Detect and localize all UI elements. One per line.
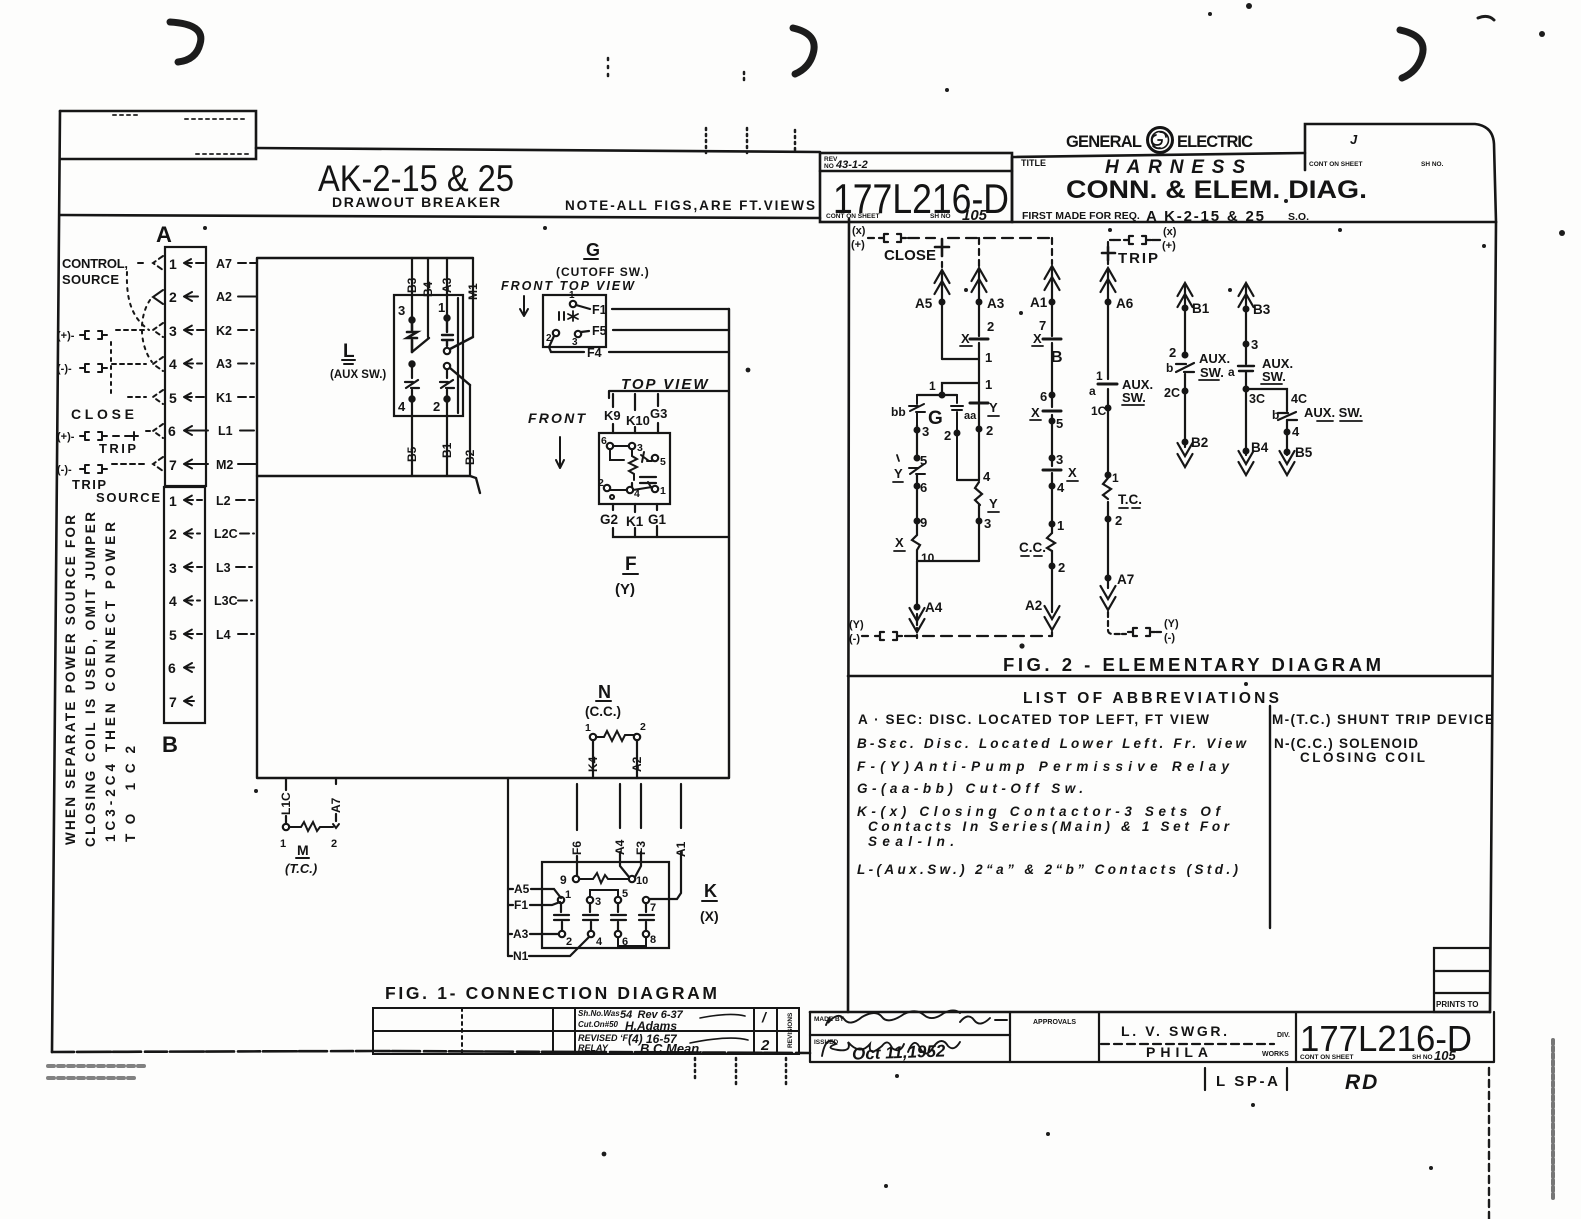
signatures [822,1011,1007,1064]
block A terminals 1-7 with wires A7 A2 K2 A3 K1 L1 M2 [168,256,256,473]
svg-text:CONT ON SHEET: CONT ON SHEET [1300,1054,1353,1061]
svg-text:B5: B5 [405,446,419,462]
svg-text:FIRST MADE FOR REQ.: FIRST MADE FOR REQ. [1022,210,1140,222]
svg-text:A5: A5 [514,882,530,896]
svg-text:9: 9 [560,873,567,887]
terminal block B [162,487,205,757]
svg-text:1: 1 [985,350,992,365]
pen squiggles top [170,22,201,62]
svg-text:1: 1 [1057,518,1064,533]
svg-text:5: 5 [622,888,628,900]
svg-text:(CUTOFF SW.): (CUTOFF SW.) [556,265,650,279]
svg-text:(Y): (Y) [1164,618,1179,630]
jumpers [590,890,618,897]
right margin faint writing [1551,1040,1555,1200]
svg-text:A · SEC: DISC. LOCATED TOP L: A · SEC: DISC. LOCATED TOP LEFT, FT VIEW [858,712,1209,727]
svg-text:4: 4 [1057,480,1065,495]
svg-text:2: 2 [331,838,337,850]
svg-text:2: 2 [1058,560,1065,575]
prints-to box [1434,948,1490,1012]
svg-text:2: 2 [986,423,993,438]
svg-text:CLOSE: CLOSE [884,247,936,264]
wire A1 lower [650,784,688,899]
svg-text:2: 2 [433,399,440,414]
svg-text:N-(C.C.) SOLENOID: N-(C.C.) SOLENOID [1274,736,1418,751]
HEADER [318,132,1444,225]
svg-text:2: 2 [640,721,646,733]
relay F (Y) [528,410,670,504]
sheet left border [52,111,60,1052]
svg-text:3C: 3C [1249,392,1265,406]
svg-text:A5: A5 [915,296,933,311]
svg-text:bb: bb [891,405,906,419]
svg-text:SW.: SW. [1200,365,1224,380]
svg-text:7: 7 [169,694,177,710]
title box [1012,153,1496,222]
svg-text:1: 1 [985,377,992,392]
svg-text:K9: K9 [604,408,621,423]
faint dotted content of top-left box [113,115,248,154]
svg-text:FIG. 2 - ELEMENTARY DIAGRAM: FIG. 2 - ELEMENTARY DIAGRAM [1003,654,1381,675]
aux switch L [330,295,473,416]
svg-text:(-)-: (-)- [57,464,72,476]
svg-text:L2C: L2C [214,527,238,541]
svg-text:5: 5 [169,390,177,406]
svg-text:HARNESS: HARNESS [1105,157,1245,178]
svg-text:B2: B2 [1191,435,1208,450]
svg-text:4: 4 [596,936,603,948]
svg-text:3: 3 [595,896,601,908]
svg-text:SW.: SW. [1262,369,1286,384]
svg-text:6: 6 [920,480,927,495]
svg-text:F: F [625,554,637,575]
svg-text:F4: F4 [587,346,602,360]
jog to G [942,383,979,395]
svg-text:A7: A7 [216,257,232,271]
branch A3 / X / Y coil chain [942,238,1005,561]
svg-text:L1: L1 [218,424,233,438]
fig2 / list divider [848,675,1491,678]
vertical note: separate power source [63,512,138,847]
svg-text:SH NO.: SH NO. [1421,161,1444,168]
svg-text:Y: Y [989,400,998,415]
svg-text:TITLE: TITLE [1021,158,1046,168]
bottom-left faint codes [48,1066,148,1078]
terminal 9 and 10 with coil [573,876,579,882]
svg-text:REVISED ‘F’: REVISED ‘F’ [578,1033,631,1043]
svg-text:4: 4 [983,469,991,484]
contact Y [970,402,988,405]
svg-text:1C: 1C [1091,404,1107,418]
svg-text:J: J [1350,132,1358,147]
GE monogram [1148,128,1173,153]
svg-text:1: 1 [569,290,575,301]
K left feed bus [507,778,509,956]
svg-text:105: 105 [962,207,988,224]
svg-text:PHILA: PHILA [1146,1044,1208,1060]
dwg number box top [820,153,1012,222]
svg-text:N1: N1 [513,949,529,963]
svg-text:G3: G3 [650,406,667,421]
svg-text:B1: B1 [1192,301,1210,316]
svg-text:B: B [162,732,178,757]
svg-text:X: X [1031,405,1040,420]
svg-text:2: 2 [987,319,994,334]
svg-text:X: X [895,535,904,550]
svg-text:2: 2 [566,936,572,948]
svg-text:Sh.No.Was: Sh.No.Was [578,1009,620,1018]
top-left reference box [60,111,256,159]
relay F top view riser [604,376,729,433]
terminals 5-6 [615,897,621,903]
svg-text:TO 1C2: TO 1C2 [123,746,138,842]
svg-text:B5: B5 [1295,445,1313,460]
svg-text:X: X [1068,465,1077,480]
contact X [970,338,988,341]
node CLOSE [935,239,949,256]
wire M1 [466,258,480,337]
svg-text:B3: B3 [405,277,419,293]
registration dot columns bottom [695,1058,786,1084]
wire A4 to (-) bus [910,600,943,638]
svg-text:B1: B1 [440,442,454,458]
svg-text:Y: Y [894,466,903,481]
LIST [857,690,1494,877]
header rule upper [256,148,820,152]
svg-text:A3: A3 [440,277,454,293]
trip device M (T.C.) [279,778,343,876]
F capacitor [640,477,656,483]
svg-text:F3: F3 [634,841,648,855]
svg-text:L3: L3 [216,561,231,575]
svg-text:3: 3 [169,560,177,576]
closing coil N (C.C.) [585,682,646,741]
svg-text:FRONT: FRONT [528,410,586,426]
svg-text:a: a [1089,384,1096,398]
svg-text:1: 1 [438,300,445,315]
close bus (-) [849,619,1052,645]
svg-text:M2: M2 [216,458,233,472]
svg-text:CONN. & ELEM. DIAG.: CONN. & ELEM. DIAG. [1066,176,1367,204]
svg-text:GENERAL: GENERAL [1066,133,1142,151]
svg-text:CONT ON SHEET: CONT ON SHEET [826,213,879,220]
svg-text:(+)-: (+)- [57,431,75,443]
block B terminals 1-7 with wires L2 L2C L3 L3C L4 [168,493,254,710]
svg-text:2: 2 [169,526,177,542]
svg-text:2: 2 [760,1037,770,1054]
svg-text:(x): (x) [852,225,866,237]
branch A6 / aux sw / T.C. [1089,268,1153,634]
F terminals bottom row 2 4 1 [604,485,610,491]
svg-text:3: 3 [572,337,578,348]
svg-text:1: 1 [169,256,177,272]
svg-text:B3: B3 [1253,302,1271,317]
svg-text:PRINTS TO: PRINTS TO [1436,1000,1479,1009]
svg-text:Oct 11,1952: Oct 11,1952 [852,1041,946,1063]
contact bb [909,395,925,425]
svg-text:Cut.On#50: Cut.On#50 [578,1020,619,1029]
svg-text:G: G [586,240,600,260]
svg-text:7: 7 [169,457,177,473]
svg-text:A6: A6 [1116,296,1134,311]
G contacts [559,312,564,320]
svg-text:(T.C.): (T.C.) [285,861,317,876]
wire F1 into K [508,898,560,912]
svg-text:SOURCE: SOURCE [62,272,119,287]
sheet bottom border [52,1051,810,1053]
svg-text:L: L [343,341,355,362]
svg-text:H.Adams: H.Adams [625,1019,677,1033]
svg-text:Contacts In Series(Main) & 1 S: Contacts In Series(Main) & 1 Set For [868,819,1230,834]
svg-text:K: K [704,881,717,901]
svg-text:4: 4 [169,593,177,609]
svg-text:F-(Y)Anti-Pump Permissive Rela: F-(Y)Anti-Pump Permissive Relay [857,759,1230,774]
svg-text:6: 6 [1040,389,1047,404]
svg-text:Y: Y [989,496,998,511]
wire K4 [586,740,600,778]
svg-text:K-(x) Closing Contactor-3 Sets: K-(x) Closing Contactor-3 Sets Of [857,804,1222,819]
svg-text:L-(Aux.Sw.) 2“a” & 2“b” Conta: L-(Aux.Sw.) 2“a” & 2“b” Contacts (Std.) [857,862,1239,877]
svg-text:2: 2 [1115,513,1122,528]
svg-text:F5: F5 [592,324,607,338]
svg-text:ELECTRIC: ELECTRIC [1177,133,1253,151]
svg-text:S.O.: S.O. [1288,211,1309,223]
svg-text:NOTE-ALL FIGS,ARE FT.VIEWS: NOTE-ALL FIGS,ARE FT.VIEWS [565,198,815,213]
svg-text:1: 1 [585,722,591,734]
svg-text:SOURCE: SOURCE [96,490,160,505]
svg-text:1: 1 [280,838,286,850]
svg-text:Seal-In.: Seal-In. [868,834,954,849]
branch A5 [915,270,979,359]
svg-text:WHEN SEPARATE POWER SOURCE FOR: WHEN SEPARATE POWER SOURCE FOR [63,515,78,845]
wire F5 [581,324,729,338]
svg-text:(X): (X) [700,908,719,924]
svg-text:K2: K2 [216,324,232,338]
svg-text:CLOSING COIL: CLOSING COIL [1300,750,1425,765]
svg-text:DRAWOUT BREAKER: DRAWOUT BREAKER [332,194,500,210]
F terminals top row 6 3 5 [607,443,613,449]
svg-text:G1: G1 [648,512,667,527]
wire A4 [613,784,629,877]
svg-text:7: 7 [650,902,656,914]
svg-text:1: 1 [660,485,666,497]
svg-text:K4: K4 [586,756,600,772]
svg-text:3: 3 [1056,452,1063,467]
svg-text:DIV.: DIV. [1277,1032,1290,1039]
svg-text:B2: B2 [463,449,477,465]
svg-text:M1: M1 [466,283,480,300]
svg-text:1C3-2C4 THEN CONNECT POWER: 1C3-2C4 THEN CONNECT POWER [103,522,118,842]
svg-text:1: 1 [1112,471,1119,485]
svg-text:B.C.Mean.: B.C.Mean. [640,1041,703,1056]
svg-text:A7: A7 [329,797,343,813]
seal loop [917,560,979,562]
svg-text:WORKS: WORKS [1262,1051,1289,1058]
svg-text:A2: A2 [216,290,232,304]
arrows [184,259,256,268]
svg-text:L2: L2 [216,494,231,508]
svg-text:1: 1 [929,379,936,393]
svg-text:CONTROL,: CONTROL, [62,256,128,271]
svg-text:2: 2 [169,289,177,305]
svg-text:5: 5 [660,456,666,468]
svg-text:APPROVALS: APPROVALS [1033,1019,1076,1026]
wire F6 [570,784,584,876]
svg-text:(C.C.): (C.C.) [585,704,621,719]
svg-text:5: 5 [1056,416,1063,431]
svg-text:SH NO: SH NO [1412,1054,1433,1061]
svg-text:5: 5 [169,627,177,643]
svg-text:A: A [156,222,172,247]
wire N1 into K [508,937,589,963]
svg-text:3: 3 [637,442,643,454]
svg-text:CLOSE: CLOSE [71,406,134,422]
svg-text:K1: K1 [216,391,232,405]
svg-text:(AUX SW.): (AUX SW.) [330,369,386,381]
svg-text:2C: 2C [1164,386,1180,400]
svg-text:(-)-: (-)- [57,363,72,375]
T.C. coil [1103,478,1111,499]
battery/fuse marks rows 3 4 6 7 [57,330,138,476]
fig2 left border [848,219,849,1012]
contact aa [951,395,963,480]
svg-text:(+): (+) [1162,240,1176,252]
svg-text:2: 2 [944,428,951,443]
svg-text:(Y): (Y) [615,581,635,598]
G terminal 2 [553,330,559,336]
closing contactor K (X) [542,862,719,948]
svg-text:M: M [297,842,309,858]
aux switch contact 4C-B5 (b) [1246,389,1363,475]
svg-text:G2: G2 [600,512,618,527]
svg-text:8: 8 [650,934,656,946]
svg-text:43-1-2: 43-1-2 [835,159,868,171]
svg-text:(x): (x) [1163,226,1177,238]
trip bus (+) [1102,226,1177,267]
svg-text:TRIP: TRIP [99,441,136,456]
svg-text:2: 2 [1169,345,1176,360]
svg-text:G: G [928,408,943,429]
svg-text:3: 3 [922,424,929,439]
svg-text:A7: A7 [1117,572,1134,587]
svg-text:1: 1 [565,889,571,901]
svg-text:CLOSING COIL IS USED, OMIT JUM: CLOSING COIL IS USED, OMIT JUMPER [83,512,98,847]
svg-text:(+): (+) [851,239,865,251]
close bus (+) [851,225,1052,268]
aux switch contact B1-B2 (b) [1164,283,1230,467]
svg-text:A2: A2 [630,756,644,772]
terminals 7-8 [643,897,649,903]
svg-text:REVISIONS: REVISIONS [787,1012,794,1048]
wire F4 [549,336,729,360]
wire A3 into K [508,927,558,941]
svg-text:(-): (-) [1164,632,1175,644]
svg-text:B-Sɛc. Disc. Located Lower Lef: B-Sɛc. Disc. Located Lower Left. Fr. Vie… [857,736,1247,751]
registration dot columns top [706,128,795,153]
svg-text:3: 3 [169,323,177,339]
svg-text:a: a [1228,365,1235,379]
svg-text:3: 3 [984,516,991,531]
wires G2 K1 G1 [600,504,729,598]
svg-text:A3: A3 [216,357,232,371]
svg-text:4: 4 [398,399,406,414]
svg-text:A3: A3 [513,927,529,941]
svg-text:(Y): (Y) [849,619,864,631]
svg-text:6: 6 [168,423,176,439]
aux switch contact B3-B4 (a) [1228,283,1293,475]
svg-text:K10: K10 [626,413,650,428]
svg-text:RELAY: RELAY [578,1043,609,1053]
svg-text:/: / [761,1009,768,1025]
cont-on-sheet box top right [1305,124,1496,222]
svg-text:TRIP: TRIP [1118,250,1158,267]
wire A3 top [440,258,454,318]
cutoff switch G coil group [891,379,979,605]
svg-text:B: B [1051,349,1063,366]
wire B4 [421,258,435,337]
svg-text:A1: A1 [1030,295,1048,310]
wire B1 [440,416,454,476]
svg-text:L4: L4 [216,628,231,642]
svg-text:CONT ON SHEET: CONT ON SHEET [1309,161,1362,168]
LSP-A [1205,1068,1287,1090]
svg-text:10: 10 [921,551,935,565]
svg-text:C.C.: C.C. [1019,540,1046,555]
wire B3 [405,258,419,320]
Y coil [975,482,982,505]
cutoff switch G [501,240,650,348]
wire F3 [634,784,648,877]
svg-text:1: 1 [169,493,177,509]
svg-text:N: N [598,682,611,702]
svg-text:X: X [961,331,970,346]
svg-text:6: 6 [601,435,607,447]
F coil [629,449,637,480]
svg-text:AUX.: AUX. [1199,351,1230,366]
branch A1 / X X X / C.C. [1019,238,1078,630]
svg-text:4: 4 [1292,424,1300,439]
abbreviations divider [1269,706,1271,928]
contact X seal [912,524,920,560]
svg-text:A4: A4 [925,600,943,615]
svg-text:1: 1 [1096,369,1103,383]
trip bus (-) [1122,618,1179,644]
svg-text:(+)-: (+)- [57,330,75,342]
dashed jumper curves [111,272,152,398]
svg-text:A3: A3 [987,296,1005,311]
svg-text:L. V. SWGR.: L. V. SWGR. [1121,1023,1227,1039]
wire F1 [576,303,729,317]
svg-text:F1: F1 [514,898,528,912]
TITLEBLOCK [810,1011,1494,1095]
svg-text:(-): (-) [849,633,860,645]
wire A2 lower [630,740,644,778]
svg-text:105: 105 [1434,1048,1456,1063]
G terminal 3 [575,331,581,337]
svg-text:A1: A1 [674,841,688,857]
row pick brackets [112,256,163,471]
svg-text:AUX. SW.: AUX. SW. [1304,405,1363,420]
svg-text:3: 3 [398,303,405,318]
svg-text:4C: 4C [1291,392,1307,406]
svg-text:2: 2 [598,477,604,489]
svg-text:A4: A4 [613,839,627,855]
svg-text:X: X [1033,331,1042,346]
list bottom / title strip top [810,1011,1490,1014]
svg-text:FIG. 1- CONNECTION DIAGRAM: FIG. 1- CONNECTION DIAGRAM [385,983,717,1003]
left-side source labels [62,256,160,505]
svg-text:b: b [1166,361,1173,375]
